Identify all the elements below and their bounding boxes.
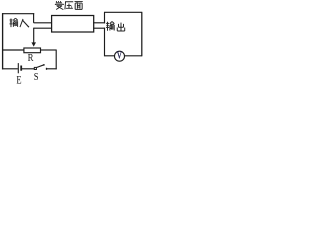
wire lower: sensor to output box bbox=[93, 27, 105, 29]
node output-box 输出 (tall box with meter loop) bbox=[104, 11, 142, 13]
wire R left bbox=[2, 49, 24, 51]
wire bottom left bbox=[2, 68, 18, 70]
wire battery to switch bbox=[22, 68, 34, 70]
resistor R body bbox=[24, 48, 41, 53]
battery E long plate bbox=[17, 63, 19, 73]
glyph 输 of 输入 bbox=[10, 18, 18, 27]
glyph 压 bbox=[65, 2, 73, 10]
node input-box 输入 (open-bottom box) bbox=[2, 13, 34, 15]
switch S left terminal (open square) bbox=[34, 67, 36, 69]
text 受压面 (drawn glyphs) bbox=[55, 1, 83, 10]
glyph 入 of 输入 bbox=[20, 19, 29, 27]
wire arrow stem (input pressure onto R) bbox=[33, 28, 35, 43]
wire loop right vertical bbox=[55, 50, 57, 70]
text 输出 (drawn glyphs) bbox=[106, 21, 125, 30]
voltmeter circle bbox=[115, 51, 125, 61]
svg-text:S: S bbox=[34, 71, 39, 83]
arrowhead pressing on R bbox=[31, 42, 36, 46]
switch S right terminal bbox=[46, 68, 47, 70]
svg-text:V: V bbox=[117, 49, 123, 60]
svg-text:R: R bbox=[28, 52, 34, 64]
wire lower: input box to sensor bbox=[34, 27, 53, 29]
text 输入 (drawn glyphs) bbox=[10, 18, 30, 27]
switch S lever tip dot bbox=[43, 64, 45, 66]
wire upper: sensor to output box bbox=[93, 22, 105, 24]
glyph 面 bbox=[74, 2, 82, 10]
glyph 出 bbox=[117, 23, 124, 31]
switch S lever bbox=[37, 65, 44, 68]
node sensor body (rect under 受压面 label) bbox=[52, 16, 94, 33]
svg-text:E: E bbox=[16, 74, 21, 86]
glyph 受 bbox=[55, 1, 63, 10]
wire upper: input box to sensor bbox=[34, 22, 53, 24]
glyph 输 of 输出 bbox=[106, 21, 114, 30]
battery E short thick plate bbox=[20, 66, 22, 71]
wire R right bbox=[41, 49, 57, 51]
wire switch to loop corner bbox=[46, 68, 57, 70]
